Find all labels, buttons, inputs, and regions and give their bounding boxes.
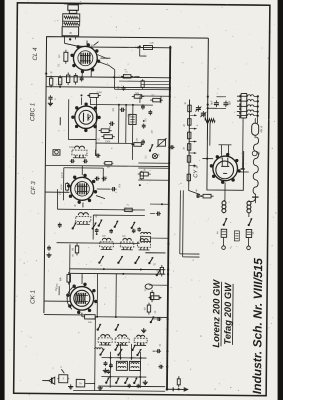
cap C27 swrow <box>137 228 141 230</box>
pot P3 osc <box>145 284 152 289</box>
wire below CY1 down <box>224 183 226 202</box>
resistor R30 left of CL4 <box>64 52 68 61</box>
wire osc row y377 <box>101 376 146 378</box>
tube CF3 <box>70 177 93 200</box>
speaker magnet box <box>68 5 79 11</box>
dashed gang line <box>239 95 241 120</box>
tuning cap CV2 <box>201 112 206 114</box>
junction dot r1 <box>137 46 139 48</box>
wire osc vert x133 <box>130 344 132 360</box>
tube CK1 <box>70 286 94 310</box>
wire osc vert x122 <box>119 344 121 360</box>
junction dot y47.5 bus <box>169 47 171 49</box>
tuning cap CV1 <box>196 107 201 109</box>
switch S26 low3 <box>124 382 126 384</box>
ground ant <box>70 384 72 386</box>
wire y285 branch <box>149 284 168 286</box>
wire CL4 right lead y58 <box>100 57 110 59</box>
svg-text:2M: 2M <box>126 115 130 117</box>
hairpin coil L4 <box>141 232 144 234</box>
cap C22 8uF <box>214 102 219 104</box>
wire meander to branch <box>249 197 256 202</box>
wire CL4 cathode down <box>81 71 83 77</box>
svg-text:CBC 1: CBC 1 <box>29 103 36 121</box>
zigzag dropper R27 <box>205 119 215 123</box>
wire CF3 box left <box>62 168 64 200</box>
wire CY1 box <box>207 141 244 191</box>
junction dots band <box>103 268 105 270</box>
cap C18 bus low2 <box>157 349 159 353</box>
cap C6 det <box>141 105 145 107</box>
wire gnd bus y386.5 <box>98 385 165 388</box>
mains terminal 1 <box>222 246 226 250</box>
switch S6 band <box>134 262 136 264</box>
pot P1 volume <box>158 140 166 147</box>
switch S9 low <box>117 354 119 356</box>
switch S1 det <box>149 149 151 151</box>
switch S3 below CF3 <box>92 227 94 229</box>
cap C3 row <box>48 96 52 98</box>
heater ladder rails <box>240 93 242 117</box>
wire inner frame bottom y315.5 <box>44 314 84 316</box>
voltage selector label <box>234 231 239 241</box>
cap C12 if <box>84 159 86 163</box>
IF transformer T2 <box>78 213 83 216</box>
switch S23 osc3 <box>131 349 133 351</box>
cap C11 if <box>71 159 73 163</box>
svg-text:8μF: 8μF <box>228 100 231 105</box>
resistor R8 mid <box>101 129 109 133</box>
scan speckle noise <box>180 10 183 13</box>
wire row y243.5 <box>57 242 140 245</box>
resistor chain R26 <box>187 174 190 181</box>
svg-text:0,1: 0,1 <box>57 54 61 58</box>
tube CY1 <box>213 156 238 181</box>
scanner black band right edge <box>278 0 283 400</box>
cap C13 below CF3 <box>58 223 62 225</box>
cap C23 8uF2 <box>223 102 228 104</box>
wire CF3 left labels lead <box>45 191 69 193</box>
wire y180 row <box>138 179 169 181</box>
cap C5 left arm <box>96 154 98 158</box>
cap C26 swrow <box>132 229 136 231</box>
junction dots rows <box>169 77 171 79</box>
resistor chain R21 <box>188 105 191 112</box>
cap C28 det3 <box>142 124 146 126</box>
box TA <box>76 379 85 387</box>
switch S16 mains <box>248 224 250 226</box>
switch S2 below CF3 <box>72 227 74 229</box>
cap C21 on x207 <box>207 104 209 106</box>
resistor R12 det <box>153 98 161 102</box>
wire row y274 <box>69 272 165 275</box>
wire x57.5 vert <box>56 189 58 209</box>
cap C31 osc <box>137 384 140 386</box>
junction dot row2 <box>59 86 61 88</box>
wire x138 corner <box>140 46 147 56</box>
wire y238 branch <box>150 237 169 239</box>
switch S17 sw <box>98 224 100 226</box>
switch S20 osc2 <box>97 328 99 330</box>
resistor R14 50 <box>75 246 78 253</box>
resistor chain R24 <box>187 144 190 151</box>
cap C24 swrow <box>95 229 99 231</box>
wire vert x96.5 <box>94 317 97 391</box>
IF transformer T1 <box>74 146 79 149</box>
switch S5 band <box>117 262 119 264</box>
cap C1 below R2 <box>121 87 125 89</box>
resistor R3 below CL4 <box>66 75 69 83</box>
scale lamp <box>252 123 259 135</box>
wire y163 row <box>138 162 169 164</box>
barretter circle <box>252 151 257 156</box>
wire row y210 <box>57 208 144 211</box>
antenna coupler box <box>59 375 68 383</box>
svg-text:CL 4: CL 4 <box>32 47 39 61</box>
vol pot wires v1 <box>118 105 120 143</box>
switch S19 sw <box>131 227 133 229</box>
cap C25 swrow <box>109 229 113 231</box>
resistor R17 25 <box>160 267 163 274</box>
svg-text:CK 1: CK 1 <box>29 290 36 304</box>
vol pot wires v2 <box>125 105 127 143</box>
switch S14 osc <box>150 321 152 323</box>
hairpin small L10 <box>95 348 98 349</box>
wire CK1 left leads <box>44 300 70 302</box>
antenna tick <box>51 378 53 384</box>
wire x183 turn right <box>183 256 200 258</box>
mains connector X2 <box>246 230 252 238</box>
dots osc <box>105 343 107 345</box>
resistor R11 det <box>134 95 142 99</box>
wire vert x183 <box>182 190 185 256</box>
cap C8 det2 <box>141 140 145 142</box>
junction dot speaker <box>69 38 71 40</box>
mains connector X1 <box>221 229 227 237</box>
cap C33 cf3 pair <box>95 177 97 181</box>
pot P2 left <box>53 150 60 156</box>
wire inner frame right vertical x207 <box>206 38 209 140</box>
wire y107.6 branch <box>208 107 217 109</box>
wire bus row y81.3 <box>119 80 170 82</box>
svg-text:8μF: 8μF <box>210 100 213 105</box>
svg-text:100p: 100p <box>69 147 75 149</box>
switch S8 low <box>99 353 101 355</box>
resistor R13 af <box>140 172 148 176</box>
wire CF3 right leads <box>97 188 110 190</box>
wire chain top <box>188 99 191 185</box>
band coil L6 <box>118 335 123 337</box>
wire CF3 bottom <box>82 203 84 208</box>
bus arrow bottom <box>167 388 184 390</box>
resistor R32 right of bus <box>177 379 180 385</box>
svg-text:1M: 1M <box>152 130 154 133</box>
wire bus row y87.6 <box>46 87 170 88</box>
switch S7 band <box>148 262 150 264</box>
speaker field coil <box>63 14 80 22</box>
svg-text:Industr. Sch. Nr. VIII/515: Industr. Sch. Nr. VIII/515 <box>250 258 265 395</box>
switch S21 osc2 <box>115 329 117 331</box>
wire speaker right lead <box>75 36 77 39</box>
wire bus row y84.3 <box>141 83 170 85</box>
wire CF3 box top <box>64 167 103 169</box>
RF choke CH3 <box>248 199 250 202</box>
resistor R20 osc 40 <box>147 305 150 312</box>
cap C9 on bus <box>170 145 172 149</box>
wire y317.2 row <box>95 316 167 319</box>
resistor R16 below CK1 <box>85 315 96 319</box>
wire x180 turn right <box>180 253 200 255</box>
resistor R9 150k below CBC1 <box>104 135 113 139</box>
wire x95.5 vert <box>95 97 98 155</box>
ground osc2 <box>99 386 101 388</box>
tube CBC1 <box>75 106 98 129</box>
antenna arrow <box>49 377 55 384</box>
resistor R2 right of CL4 <box>123 75 131 78</box>
wire inner frame left+top <box>44 37 208 315</box>
band coil L7 <box>137 335 141 337</box>
wire CL4 anode row1 y47.5 <box>91 46 170 49</box>
cap C4 coupling mid <box>121 108 123 112</box>
resistor R4 below CL4b <box>74 76 77 83</box>
wire section top y215.5 <box>93 214 144 216</box>
wire y391 bottom <box>73 389 165 392</box>
resistor R28 2k <box>125 208 133 211</box>
cap C15 low <box>104 362 108 364</box>
cap C16 low <box>109 364 113 366</box>
resistor chain R25 <box>187 156 190 163</box>
heater ladder rungs <box>237 95 247 97</box>
resistor Rx at 141 <box>141 81 144 88</box>
wire v3 <box>131 105 134 160</box>
wire osc row y358 <box>101 357 146 359</box>
switch S22 osc3 <box>114 349 116 351</box>
wire dots column down <box>257 96 259 123</box>
wire x113.5 down <box>114 70 116 89</box>
wire y168 row <box>138 167 169 169</box>
chain branch dots <box>194 114 196 116</box>
cap C2 below CL4 <box>80 77 84 79</box>
wire CK1 left box <box>68 244 70 294</box>
junction dots bus mid <box>167 269 169 271</box>
speaker voice coil <box>64 22 79 25</box>
band coil L2 <box>123 238 127 240</box>
wire osc vert x142 <box>139 352 141 388</box>
svg-text:0,5M: 0,5M <box>96 92 101 94</box>
wire y89.5 <box>115 88 170 91</box>
switch S10 low <box>136 354 138 356</box>
resistor R7 above CBC1 <box>90 94 99 98</box>
cap C14 gnd band <box>47 246 51 248</box>
wire CBC1 top leads <box>80 97 82 104</box>
wire y105 row <box>91 104 153 107</box>
band coil L3 <box>140 239 144 241</box>
wire bus row y77.5 <box>46 77 170 78</box>
wire diagonal to CL4 grid <box>64 43 91 47</box>
wire x98.3 vert <box>96 274 98 317</box>
osc coil L9 <box>129 361 140 370</box>
lamp circle det <box>152 154 157 159</box>
resistor R6 row <box>58 78 61 85</box>
cap C20 left200 <box>157 212 159 216</box>
cap C30 osc <box>128 384 131 386</box>
cap C32 mid <box>110 122 112 126</box>
svg-text:150k: 150k <box>105 140 111 143</box>
resistor R1 in anode row <box>143 46 152 50</box>
wire y143.5 row <box>96 142 133 144</box>
switch S25 low3 <box>115 382 117 384</box>
wire CY1 heater leads <box>220 145 222 156</box>
wire row y166.3 <box>45 165 169 166</box>
svg-text:1M: 1M <box>137 138 139 141</box>
svg-text:Tefag 200 GW: Tefag 200 GW <box>222 282 234 345</box>
switch S4 band <box>98 261 100 263</box>
wire ladder down left <box>242 118 244 169</box>
resistor R18 horiz 295 <box>151 296 159 300</box>
cap C29 osc <box>107 370 110 372</box>
speaker top plate <box>64 3 82 5</box>
switch S15 mains <box>223 224 225 226</box>
resistor R31 left CF3 <box>65 184 68 191</box>
component top mains <box>203 194 211 198</box>
wire CL4 top lead <box>86 40 88 44</box>
cap C7 det <box>148 111 152 113</box>
wire CF3 box right <box>102 168 104 181</box>
resistor R29 right CF3 <box>140 172 143 179</box>
output transformer box <box>62 27 79 36</box>
wire y252.7 link <box>145 252 165 254</box>
svg-text:0,1M: 0,1M <box>60 171 64 178</box>
svg-text:4Ω: 4Ω <box>258 151 261 154</box>
scanner black band left edge <box>0 0 5 400</box>
cap C19 bus low3 <box>159 365 161 369</box>
wire CY1 left lead <box>202 158 213 160</box>
svg-text:TA: TA <box>79 381 82 385</box>
wire y204 branch <box>150 203 169 205</box>
wire CBC1 enclosure <box>68 99 96 139</box>
wire row y269.5 <box>69 268 165 271</box>
wire det links <box>139 96 141 103</box>
resistor R5 row <box>49 78 52 85</box>
resistor chain R22 <box>188 119 191 126</box>
main bus vertical x169 <box>167 46 170 389</box>
wire ant to right <box>85 382 95 384</box>
ground sym low <box>144 380 146 382</box>
svg-text:~: ~ <box>236 245 238 249</box>
coil box small <box>129 114 136 124</box>
wire section left x93.5 <box>92 215 94 239</box>
svg-text:Lorenz 200 GW: Lorenz 200 GW <box>210 279 222 348</box>
svg-text:0,1M: 0,1M <box>60 185 63 190</box>
osc coil L8 <box>116 361 127 370</box>
ground osc <box>143 328 145 330</box>
junction meander bottom <box>252 196 258 198</box>
band coil L5 <box>101 335 106 337</box>
switch S27 low3 <box>133 382 135 384</box>
svg-text:CY 1: CY 1 <box>193 165 199 177</box>
cap C17 bus low <box>157 317 159 321</box>
wire top right link <box>216 96 225 98</box>
switch S28 band2 <box>156 274 158 276</box>
resistor R19 osc <box>150 293 153 300</box>
resistance wire meander <box>253 137 259 194</box>
wire osc vert x112 <box>109 352 111 388</box>
wire CL4 right diag leads <box>98 62 115 70</box>
resistor R10 150 <box>134 143 142 147</box>
resistor R15 left CK1 <box>67 275 71 283</box>
wire CY1 right lead <box>239 171 249 173</box>
sheet border frame <box>14 3 270 396</box>
wire x209 down to CY1 <box>209 123 211 146</box>
svg-text:CF 3: CF 3 <box>30 181 37 195</box>
junction dots af <box>168 162 170 164</box>
mains terminal 2 <box>247 246 251 250</box>
switch S24 low3 <box>105 382 107 384</box>
wire speaker left lead <box>64 36 66 43</box>
resistor chain R23 <box>187 132 190 139</box>
resistor R33 small <box>105 162 112 165</box>
RF choke CH2 <box>223 199 225 202</box>
tube CL4 <box>73 46 97 70</box>
wire ladder arrowtick <box>241 168 245 170</box>
cap C10 right CF3 <box>112 187 114 191</box>
band coil L1 <box>102 238 106 240</box>
svg-text:6BL Ø: 6BL Ø <box>260 126 263 133</box>
wire x117 vert <box>115 274 117 317</box>
wire CK1 bottom lead <box>81 313 83 317</box>
chain branch stubs <box>189 114 196 116</box>
switch S18 sw <box>114 226 116 228</box>
wire vert x180 <box>179 190 182 253</box>
